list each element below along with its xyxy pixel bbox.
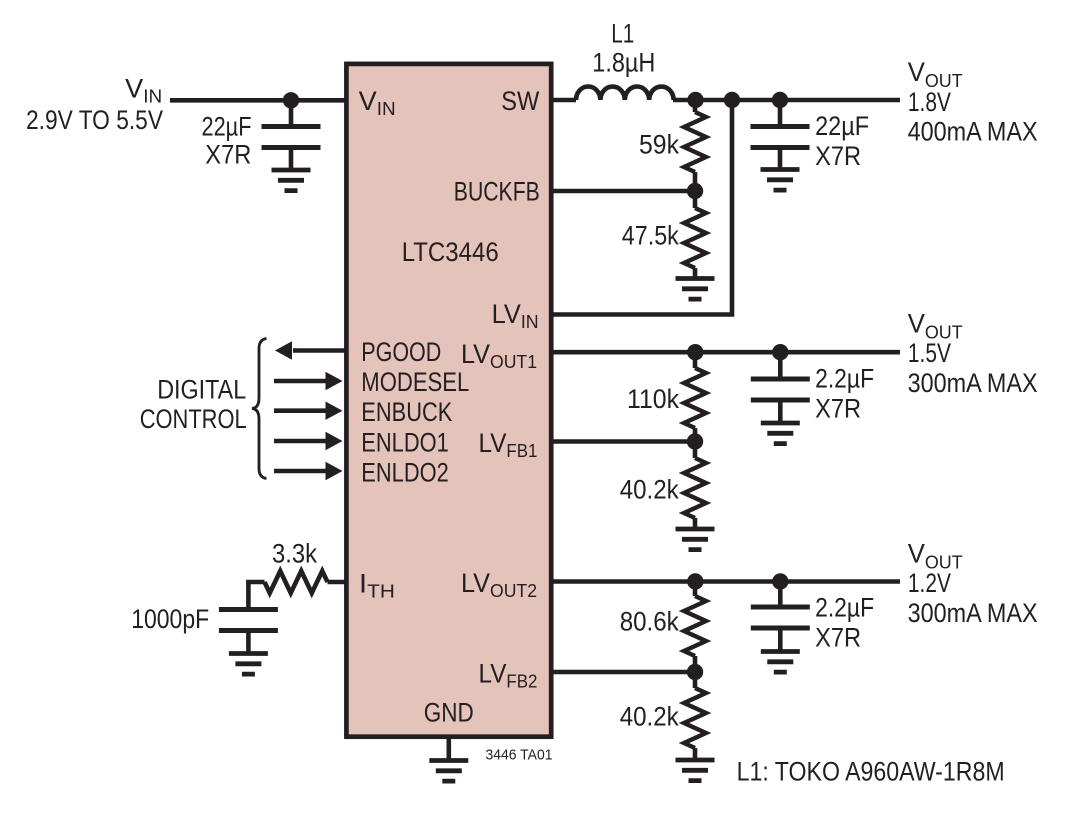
wire GND pin stub: [446, 736, 451, 761]
svg-text:47.5k: 47.5k: [622, 220, 680, 250]
wire VOUT1 rail: [673, 98, 900, 103]
svg-text:MODESEL: MODESEL: [361, 367, 469, 397]
wire outcap2 stubs: [778, 352, 783, 423]
svg-text:ENLDO2: ENLDO2: [361, 457, 449, 487]
wire ENLDO2 arrow shaft: [274, 469, 326, 474]
wire LVFB2: [551, 670, 695, 675]
wire VIN input: [170, 98, 346, 103]
svg-text:110k: 110k: [627, 384, 680, 414]
wire 110k stubs: [693, 352, 698, 529]
svg-text:BUCKFB: BUCKFB: [454, 176, 540, 206]
svg-text:1.2V: 1.2V: [908, 568, 951, 598]
capacitor C1 22uF input: [262, 127, 321, 148]
node LVIN riser junction: [724, 92, 740, 108]
resistor R7 3.3k: [265, 571, 328, 593]
svg-text:1.8µH: 1.8µH: [592, 48, 655, 78]
node LVFB2 junction: [687, 664, 703, 680]
svg-text:400mA MAX: 400mA MAX: [908, 117, 1038, 147]
capacitor C4 2.2uF out3: [751, 607, 810, 628]
wire input cap stub: [289, 100, 294, 170]
wire ITH stub: [328, 580, 347, 585]
wire LVFB1: [551, 439, 695, 444]
wire PGOOD arrow shaft: [293, 348, 346, 353]
svg-text:1.5V: 1.5V: [908, 338, 951, 368]
svg-text:VOUT: VOUT: [908, 538, 963, 572]
resistor R3 110k: [684, 368, 706, 428]
svg-text:ENBUCK: ENBUCK: [361, 397, 452, 427]
wire outcap3 stubs: [778, 582, 783, 652]
svg-text:LTC3446: LTC3446: [402, 237, 499, 267]
svg-text:40.2k: 40.2k: [620, 701, 680, 731]
capacitor C2 22uF out1: [751, 127, 810, 148]
resistor R4 40.2k: [684, 458, 706, 518]
svg-text:L1: L1: [611, 18, 634, 48]
ground outcap2: [761, 423, 800, 444]
node VIN junction: [283, 92, 299, 108]
svg-text:300mA MAX: 300mA MAX: [908, 598, 1038, 628]
svg-text:VOUT: VOUT: [908, 57, 963, 91]
capacitor C3 2.2uF out2: [751, 379, 810, 400]
arrowhead PGOOD (points left): [275, 341, 292, 359]
svg-text:1.8V: 1.8V: [908, 87, 951, 117]
ground outcap3: [761, 652, 800, 673]
wire outcap1 stubs: [778, 100, 783, 170]
svg-text:40.2k: 40.2k: [620, 474, 680, 504]
ground buck divider: [676, 279, 715, 300]
capacitor C5 1000pF: [219, 610, 278, 631]
svg-text:X7R: X7R: [815, 622, 861, 652]
svg-text:VOUT: VOUT: [908, 308, 963, 342]
wire ITH corner: [248, 582, 264, 610]
ground 1000pF: [229, 654, 268, 675]
svg-text:1000pF: 1000pF: [131, 604, 209, 634]
wire 80.6k stubs: [693, 582, 698, 761]
svg-text:3.3k: 3.3k: [272, 539, 318, 569]
svg-text:80.6k: 80.6k: [620, 606, 680, 636]
resistor R6 40.2k: [684, 688, 706, 748]
svg-text:22µF: 22µF: [202, 112, 252, 142]
svg-text:SW: SW: [501, 86, 539, 116]
node BUCKFB junction: [687, 183, 703, 199]
wire ENLDO1 arrow shaft: [274, 439, 326, 444]
resistor R1 59k: [684, 112, 706, 172]
svg-text:2.2µF: 2.2µF: [815, 593, 874, 623]
svg-text:2.2µF: 2.2µF: [815, 364, 874, 394]
brace digital control: [252, 339, 267, 479]
arrowhead ENLDO1: [326, 432, 343, 450]
svg-text:L1: TOKO A960AW-1R8M: L1: TOKO A960AW-1R8M: [737, 757, 1005, 787]
wire LVOUT2 rail: [551, 579, 900, 584]
arrowhead MODESEL: [326, 372, 343, 390]
wire ENBUCK arrow shaft: [274, 408, 326, 413]
svg-text:3446 TA01: 3446 TA01: [486, 747, 553, 764]
svg-text:X7R: X7R: [815, 141, 861, 171]
node LVOUT2 junction C: [772, 573, 788, 589]
ground outcap1: [761, 170, 800, 191]
wire MODESEL arrow shaft: [274, 379, 326, 384]
op-amp U1 : IC LTC3446 body: [346, 64, 551, 737]
ground GND pin: [429, 761, 468, 782]
svg-text:59k: 59k: [639, 129, 680, 159]
node LVOUT1 junction C: [772, 344, 788, 360]
ground input cap: [272, 170, 311, 191]
arrowhead ENBUCK: [326, 402, 343, 420]
svg-text:PGOOD: PGOOD: [361, 337, 441, 367]
svg-text:300mA MAX: 300mA MAX: [908, 368, 1038, 398]
svg-text:DIGITAL: DIGITAL: [157, 374, 246, 404]
wire SW to L1: [551, 98, 576, 103]
inductor L1: [576, 86, 674, 100]
resistor R2 47.5k: [684, 208, 706, 268]
svg-text:CONTROL: CONTROL: [140, 404, 247, 434]
wire LVIN riser: [551, 100, 732, 315]
wire LVOUT1 rail: [551, 350, 900, 355]
node LVOUT1 junction R: [687, 344, 703, 360]
svg-text:VIN: VIN: [125, 73, 162, 106]
svg-text:X7R: X7R: [205, 140, 251, 170]
wire BUCKFB: [551, 189, 695, 194]
wire 59k stubs: [693, 100, 698, 279]
ground ldo2 divider: [676, 760, 715, 781]
node LVFB1 junction: [687, 433, 703, 449]
svg-text:2.9V TO 5.5V: 2.9V TO 5.5V: [26, 105, 163, 135]
svg-text:22µF: 22µF: [815, 111, 869, 141]
resistor R5 80.6k: [684, 596, 706, 656]
node LVOUT2 junction R: [687, 573, 703, 589]
svg-text:X7R: X7R: [815, 393, 861, 423]
node outcap1 junction: [772, 92, 788, 108]
svg-text:ENLDO1: ENLDO1: [361, 427, 449, 457]
ground ldo1 divider: [676, 529, 715, 550]
wire 1000pF stub: [246, 631, 251, 654]
node SW-R junction: [687, 92, 703, 108]
arrowhead ENLDO2: [326, 462, 343, 480]
svg-text:GND: GND: [424, 697, 474, 727]
